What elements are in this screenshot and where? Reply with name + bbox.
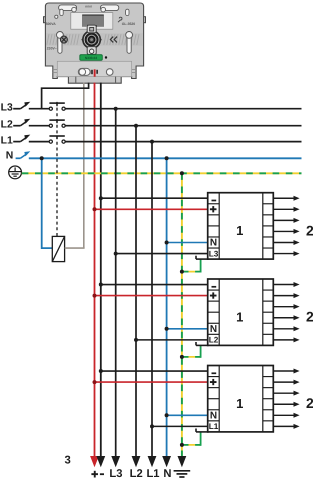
label + xyxy=(91,471,98,478)
svg-text:2: 2 xyxy=(306,222,313,238)
wire: L3 line left segment xyxy=(29,108,50,110)
svg-text:L3: L3 xyxy=(1,103,13,114)
switch blade N pole (blue) xyxy=(16,151,31,158)
wire: + control (red) to unit 1 xyxy=(93,207,208,211)
label - xyxy=(100,473,104,475)
svg-text:N: N xyxy=(210,324,217,335)
switch blade L3 pole xyxy=(13,102,30,109)
label L3 bottom xyxy=(109,468,122,480)
wire: - control to unit 1 xyxy=(99,196,208,200)
svg-text:1: 1 xyxy=(236,309,243,324)
wire: L2 distribution line xyxy=(65,125,301,127)
wire: L1 distribution line xyxy=(65,141,301,143)
relay coil K (switches the contacts) xyxy=(52,236,64,261)
svg-text:1: 1 xyxy=(236,223,243,238)
svg-text:L2: L2 xyxy=(1,120,13,131)
net label L2 xyxy=(1,120,13,131)
wire: - control bus (black) from dimmer to bottom arrow xyxy=(100,83,102,456)
svg-text:N: N xyxy=(6,151,14,162)
wire: + control bus (red) from dimmer to bottom arrow xyxy=(94,83,96,456)
svg-text:2: 2 xyxy=(306,309,313,325)
wire: PE branch to unit 3 chassis xyxy=(180,429,209,447)
svg-text:N: N xyxy=(210,238,217,249)
svg-text:1: 1 xyxy=(236,396,243,411)
wire: L2 drop to unit 2 and bottom xyxy=(134,124,138,456)
wire: - control to unit 3 xyxy=(99,369,208,373)
net label L1 xyxy=(1,136,13,147)
wire: L3 distribution line xyxy=(65,108,301,110)
svg-text:N: N xyxy=(210,411,217,422)
svg-text:L1: L1 xyxy=(1,136,13,147)
svg-text:N: N xyxy=(163,468,171,480)
wire: L2 line left segment xyxy=(29,125,50,127)
svg-text:mini: mini xyxy=(85,5,92,9)
switch blade L2 pole xyxy=(13,119,30,126)
earth source symbol (circled PE) xyxy=(9,166,22,179)
wire: gray control lead from dimmer to coil xyxy=(83,83,85,249)
label 2 (lamp outputs) of unit 2 xyxy=(306,309,314,325)
earth symbol bottom xyxy=(174,471,191,477)
svg-text:L2: L2 xyxy=(209,336,219,345)
label L2 bottom xyxy=(130,468,143,480)
electronic transformer unit 3 (block 1) xyxy=(208,366,274,432)
svg-text:230V~: 230V~ xyxy=(47,47,57,51)
wire: N distribution line (blue) xyxy=(29,157,302,159)
wire: PE branch to unit 2 chassis xyxy=(180,342,209,359)
wire: L1 phase to unit 3 xyxy=(150,424,208,428)
svg-text:L1: L1 xyxy=(146,468,159,480)
wire: N (blue) to unit 3 xyxy=(165,413,208,417)
svg-text:L3: L3 xyxy=(109,468,122,480)
wire: + control (red) to unit 2 xyxy=(93,294,208,298)
svg-text:3: 3 xyxy=(64,455,70,467)
net label N xyxy=(6,151,14,162)
bus continuation arrows (3) at bottom xyxy=(90,456,186,467)
output arrows 2 of unit 3 xyxy=(273,369,299,429)
output arrows 2 of unit 1 xyxy=(273,196,299,256)
contactor contact L3 xyxy=(49,103,65,110)
wire: + control (red) to unit 3 xyxy=(93,380,208,384)
electronic transformer unit 2 (block 1) xyxy=(208,279,274,345)
label 2 (lamp outputs) of unit 1 xyxy=(306,222,314,238)
svg-text:L3: L3 xyxy=(209,249,219,258)
wire: N drop (blue) to units and bottom xyxy=(165,156,169,456)
dimmer insert (rotary master dimmer module) xyxy=(44,3,146,83)
label 3 (continuation) xyxy=(64,455,70,467)
svg-text:GL-3520: GL-3520 xyxy=(122,22,135,26)
label 2 (lamp outputs) of unit 3 xyxy=(306,395,314,411)
wire: gray lead from coil to dimmer (horizontal) xyxy=(65,247,85,249)
electronic transformer unit 1 (block 1) xyxy=(208,193,274,259)
wire: N branch (blue) to relay coil xyxy=(40,156,53,248)
wire: L3 drop to unit 1 and bottom xyxy=(114,107,118,456)
svg-text:L1: L1 xyxy=(209,422,219,431)
net label L3 xyxy=(1,103,13,114)
wire: dimmer supply lead to L3 line xyxy=(42,83,89,109)
output arrows 2 of unit 2 xyxy=(273,282,299,342)
contactor contact L1 xyxy=(49,136,65,143)
wire: L1 drop to unit 3 and bottom xyxy=(150,140,154,456)
contactor contact L2 xyxy=(49,120,65,127)
wire: N (blue) to unit 1 xyxy=(165,241,208,245)
label L1 bottom xyxy=(146,468,159,480)
wire: L3 phase to unit 1 xyxy=(114,252,208,256)
wire: PE drop (green/yellow) to units and bottom xyxy=(180,171,184,456)
wire: L2 phase to unit 2 xyxy=(134,338,208,342)
wire: N (blue) to unit 2 xyxy=(165,327,208,331)
wire: PE branch to unit 1 chassis xyxy=(180,256,209,274)
svg-text:N330-02: N330-02 xyxy=(85,56,97,60)
label N bottom xyxy=(163,468,171,480)
wire: PE distribution line (green/yellow) xyxy=(22,172,302,174)
mechanical linkage (dashed) from contacts to relay coil xyxy=(56,102,58,237)
wire: L1 line left segment xyxy=(29,141,50,143)
svg-text:2: 2 xyxy=(306,395,313,411)
switch blade L1 pole xyxy=(13,135,30,142)
svg-text:500VA: 500VA xyxy=(46,22,57,26)
svg-text:L2: L2 xyxy=(130,468,143,480)
wire: - control to unit 2 xyxy=(99,283,208,287)
